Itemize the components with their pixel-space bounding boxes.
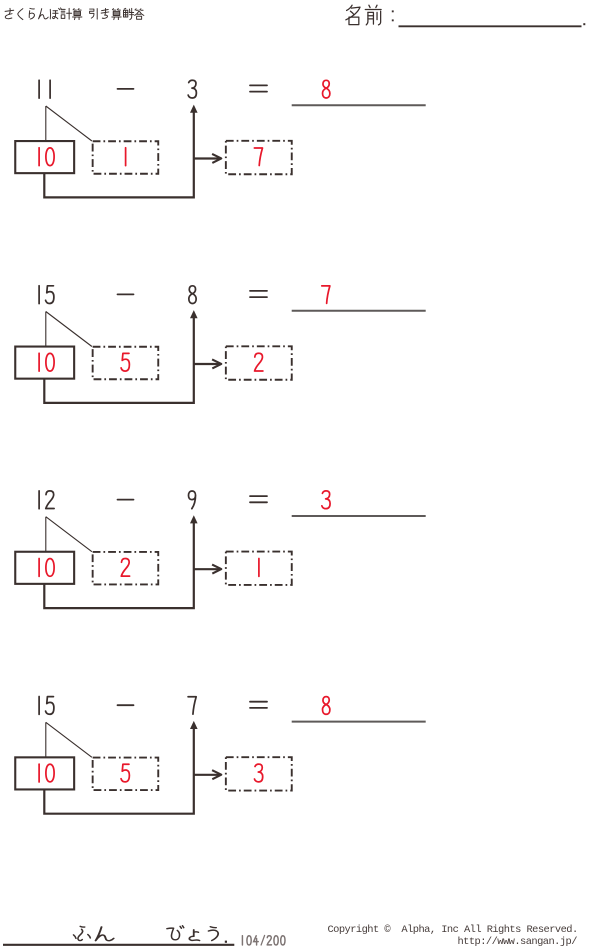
svg-text:Copyright © Alpha, Inc All Ri: Copyright © Alpha, Inc All Rights Reserv… (328, 924, 578, 936)
svg-text:http://www.sangan.jp/: http://www.sangan.jp/ (458, 936, 578, 948)
